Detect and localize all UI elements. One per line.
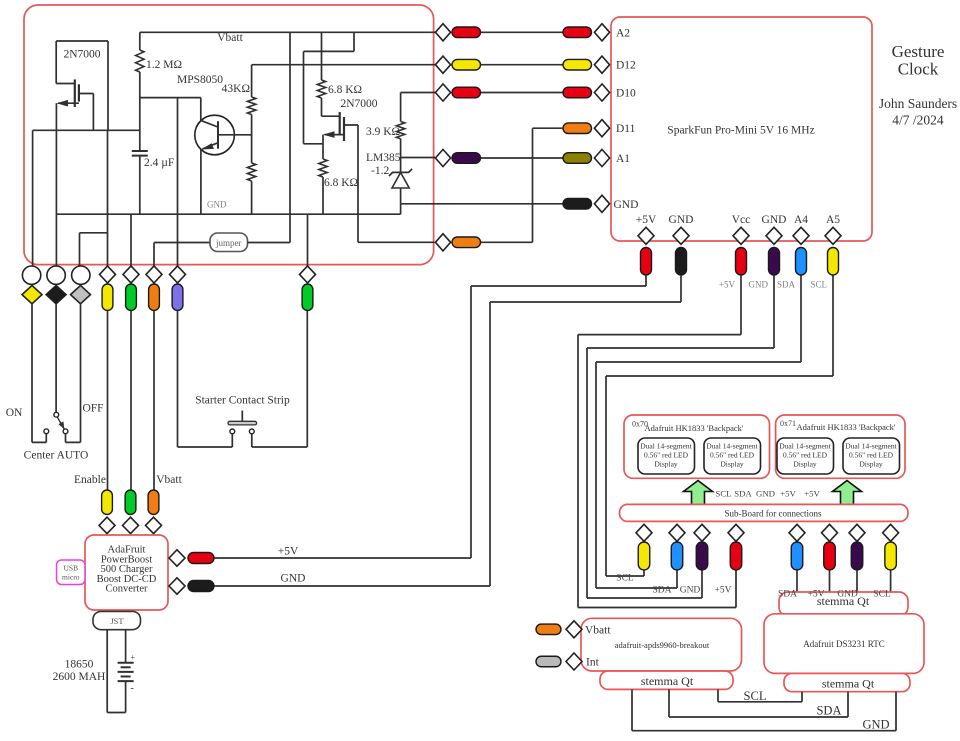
svg-text:ON: ON (6, 407, 23, 419)
svg-text:SCL: SCL (616, 574, 634, 584)
svg-text:Vcc: Vcc (732, 214, 751, 226)
svg-text:SDA: SDA (734, 489, 752, 499)
svg-text:John Saunders: John Saunders (879, 96, 957, 111)
svg-text:adafruit-apds9960-breakout: adafruit-apds9960-breakout (615, 640, 710, 650)
svg-text:+5V: +5V (636, 214, 657, 226)
svg-text:OFF: OFF (82, 403, 103, 415)
svg-text:Dual 14-segment: Dual 14-segment (779, 442, 831, 451)
svg-text:0.56" red LED: 0.56" red LED (710, 451, 755, 460)
svg-text:JST: JST (110, 616, 124, 626)
svg-text:GND: GND (749, 280, 769, 290)
svg-text:0.56" red LED: 0.56" red LED (783, 451, 828, 460)
svg-text:micro: micro (62, 573, 80, 582)
svg-text:A2: A2 (616, 27, 630, 39)
svg-text:Center AUTO: Center AUTO (24, 450, 89, 462)
svg-text:2N7000: 2N7000 (63, 49, 100, 61)
svg-text:SCL: SCL (873, 590, 891, 600)
svg-text:Display: Display (793, 460, 817, 469)
svg-text:Vbatt: Vbatt (156, 474, 182, 486)
svg-text:SCL: SCL (715, 489, 731, 499)
svg-text:GND: GND (680, 586, 701, 596)
svg-text:LM385: LM385 (366, 152, 401, 164)
svg-text:Adafruit DS3231 RTC: Adafruit DS3231 RTC (803, 639, 884, 649)
svg-text:2.4 µF: 2.4 µF (144, 157, 174, 169)
svg-text:GND: GND (281, 573, 306, 585)
svg-text:Clock: Clock (898, 60, 939, 79)
svg-text:SparkFun Pro-Mini 5V 16 MHz: SparkFun Pro-Mini 5V 16 MHz (667, 125, 814, 137)
svg-text:SCL: SCL (810, 280, 827, 290)
svg-text:+5V: +5V (278, 546, 299, 558)
svg-text:-: - (131, 683, 134, 694)
svg-text:3.9 KΩ: 3.9 KΩ (366, 126, 400, 138)
svg-text:Display: Display (654, 460, 678, 469)
svg-text:D12: D12 (616, 60, 636, 72)
svg-text:1.2 MΩ: 1.2 MΩ (146, 59, 182, 71)
svg-text:6.8 KΩ: 6.8 KΩ (328, 84, 362, 96)
svg-text:stemma Qt: stemma Qt (641, 674, 694, 688)
svg-text:GND: GND (614, 199, 639, 211)
svg-text:2N7000: 2N7000 (340, 98, 377, 110)
svg-text:GND: GND (669, 214, 694, 226)
svg-text:GND: GND (762, 214, 787, 226)
svg-text:0.56" red LED: 0.56" red LED (849, 451, 894, 460)
svg-text:Adafruit HK1833 'Backpack': Adafruit HK1833 'Backpack' (797, 422, 896, 432)
svg-text:18650: 18650 (65, 659, 94, 671)
svg-text:Converter: Converter (106, 584, 148, 595)
svg-text:Sub-Board for connections: Sub-Board for connections (725, 509, 822, 519)
svg-text:SCL: SCL (744, 689, 767, 703)
svg-text:Display: Display (859, 460, 883, 469)
svg-text:43KΩ: 43KΩ (222, 83, 250, 95)
svg-text:GND: GND (862, 718, 889, 732)
svg-text:-1.2: -1.2 (371, 165, 389, 177)
svg-text:SDA: SDA (777, 280, 796, 290)
svg-text:MPS8050: MPS8050 (177, 74, 223, 86)
svg-text:Adafruit HK1833 'Backpack': Adafruit HK1833 'Backpack' (645, 423, 744, 433)
svg-text:+5V: +5V (715, 586, 732, 596)
svg-text:A5: A5 (826, 214, 840, 226)
svg-text:6.8 KΩ: 6.8 KΩ (324, 177, 358, 189)
svg-text:+5V: +5V (719, 280, 736, 290)
svg-text:+: + (131, 653, 136, 662)
svg-text:Vbatt: Vbatt (585, 625, 611, 637)
svg-text:GND: GND (207, 200, 227, 210)
svg-text:D11: D11 (616, 123, 636, 135)
svg-text:4/7 /2024: 4/7 /2024 (892, 113, 944, 128)
svg-text:D10: D10 (616, 88, 636, 100)
svg-text:Enable: Enable (74, 474, 106, 486)
svg-text:SDA: SDA (816, 704, 841, 718)
svg-text:A1: A1 (616, 153, 630, 165)
svg-text:2600 MAH: 2600 MAH (53, 671, 106, 683)
svg-text:stemma Qt: stemma Qt (817, 594, 870, 608)
svg-text:GND: GND (756, 489, 775, 499)
svg-text:stemma Qt: stemma Qt (822, 677, 875, 691)
svg-text:Vbatt: Vbatt (217, 32, 243, 44)
svg-text:Dual 14-segment: Dual 14-segment (706, 442, 758, 451)
svg-text:A4: A4 (794, 214, 808, 226)
svg-text:Int: Int (586, 657, 600, 669)
svg-text:SDA: SDA (778, 590, 797, 600)
svg-text:SDA: SDA (652, 586, 671, 596)
svg-text:Starter Contact Strip: Starter Contact Strip (195, 395, 290, 407)
svg-text:Dual 14-segment: Dual 14-segment (640, 442, 692, 451)
svg-text:+5V: +5V (780, 489, 796, 499)
svg-text:jumper: jumper (215, 238, 242, 248)
svg-text:Gesture: Gesture (892, 42, 945, 61)
svg-text:0x71: 0x71 (780, 419, 796, 428)
svg-text:+5V: +5V (804, 489, 820, 499)
svg-text:Dual 14-segment: Dual 14-segment (845, 442, 897, 451)
svg-text:USB: USB (64, 564, 79, 573)
svg-text:Display: Display (720, 460, 744, 469)
svg-text:0.56" red LED: 0.56" red LED (644, 451, 689, 460)
